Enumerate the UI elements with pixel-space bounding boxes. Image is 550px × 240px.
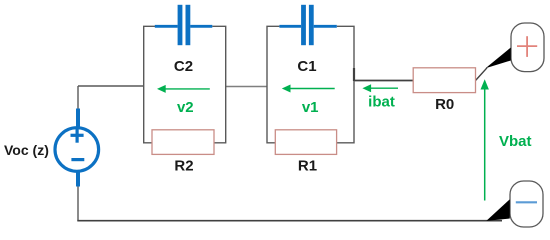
wire bbox=[476, 68, 488, 81]
junction tick bbox=[353, 68, 355, 81]
wire bbox=[77, 86, 79, 110]
arrow Vbat bbox=[481, 79, 489, 200]
svg-text:R1: R1 bbox=[298, 158, 317, 175]
terminal plus bbox=[511, 23, 544, 72]
arrow v1 bbox=[282, 85, 335, 93]
arrow v2 bbox=[157, 85, 210, 93]
svg-text:v1: v1 bbox=[302, 99, 319, 116]
wire bbox=[77, 186, 79, 221]
svg-text:C2: C2 bbox=[174, 58, 193, 75]
terminal minus bbox=[510, 181, 543, 227]
capacitor C2 bbox=[155, 5, 213, 45]
svg-text:ibat: ibat bbox=[368, 93, 395, 110]
svg-text:v2: v2 bbox=[177, 99, 194, 116]
resistor R2 bbox=[152, 130, 214, 155]
node C2 box right edge bbox=[212, 26, 225, 143]
voltage source Voc bbox=[55, 109, 99, 187]
wire bbox=[77, 220, 502, 222]
wire bbox=[354, 80, 413, 82]
capacitor C1 bbox=[279, 5, 336, 45]
node C1 box right edge bbox=[337, 26, 354, 143]
connector wedge minus bbox=[486, 199, 510, 221]
svg-text:R0: R0 bbox=[435, 96, 454, 113]
connector wedge plus bbox=[486, 48, 511, 69]
wire bbox=[226, 86, 267, 88]
node C1 box left edge bbox=[267, 26, 279, 143]
svg-text:R2: R2 bbox=[174, 158, 193, 175]
svg-text:C1: C1 bbox=[297, 58, 316, 75]
resistor R1 bbox=[275, 130, 336, 155]
arrow ibat bbox=[362, 84, 398, 92]
wire bbox=[78, 85, 144, 87]
node C2 box left edge bbox=[144, 26, 155, 143]
resistor R0 bbox=[413, 68, 475, 93]
svg-text:Vbat: Vbat bbox=[499, 133, 532, 150]
svg-text:Voc (z): Voc (z) bbox=[4, 142, 49, 158]
